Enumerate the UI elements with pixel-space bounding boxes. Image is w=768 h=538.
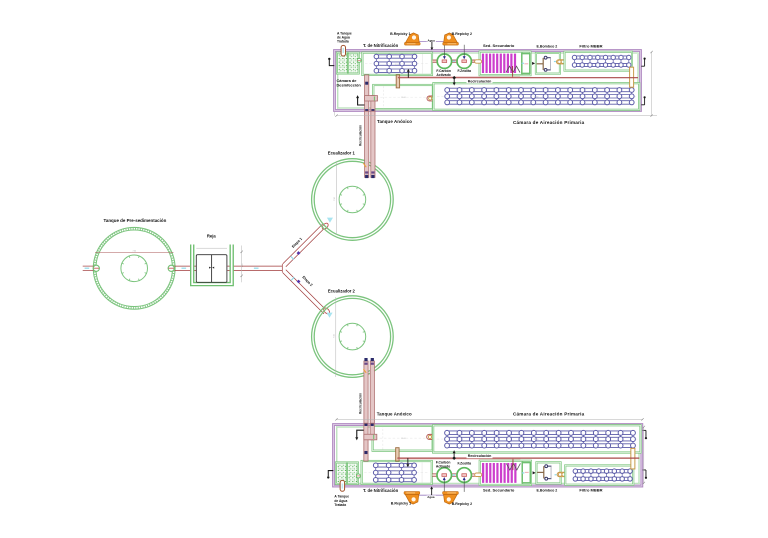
svg-text:Agua: Agua: [428, 38, 436, 42]
svg-text:Recirculación: Recirculación: [468, 80, 492, 84]
svg-text:Sed. Secundario: Sed. Secundario: [483, 487, 515, 492]
svg-text:B.Repicky 1: B.Repicky 1: [391, 502, 411, 506]
svg-text:7.50: 7.50: [132, 251, 136, 253]
svg-text:T. de Nitrificación: T. de Nitrificación: [363, 43, 399, 48]
svg-text:12.00: 12.00: [401, 97, 406, 99]
svg-text:12.00: 12.00: [401, 438, 406, 440]
svg-text:12.00: 12.00: [534, 439, 539, 441]
svg-text:1.10: 1.10: [242, 264, 244, 268]
svg-text:Sed. Secundario: Sed. Secundario: [483, 43, 515, 48]
svg-text:Tanque Anóxico: Tanque Anóxico: [377, 411, 412, 416]
svg-text:B.Repicky 2: B.Repicky 2: [452, 32, 472, 36]
svg-text:Activado: Activado: [436, 73, 450, 77]
svg-text:Ecualizador 1: Ecualizador 1: [328, 150, 356, 155]
svg-text:F.Zeolita: F.Zeolita: [458, 461, 472, 465]
svg-text:7.50: 7.50: [334, 334, 336, 338]
svg-text:Desinfección: Desinfección: [337, 83, 362, 88]
svg-text:Activado: Activado: [436, 465, 450, 469]
svg-text:Reja: Reja: [207, 233, 217, 238]
svg-text:7.50: 7.50: [334, 197, 336, 201]
svg-text:Tratada: Tratada: [334, 503, 346, 507]
svg-text:Recirculación: Recirculación: [358, 393, 362, 414]
svg-text:Tanque de Pre-sedimentación: Tanque de Pre-sedimentación: [104, 218, 167, 223]
svg-text:F.Zeolita: F.Zeolita: [458, 69, 472, 73]
svg-text:B.Repicky 2: B.Repicky 2: [452, 502, 472, 506]
svg-text:Filtro MBBR: Filtro MBBR: [579, 43, 602, 48]
svg-text:Cámara de Aireación Primaria: Cámara de Aireación Primaria: [513, 120, 585, 125]
svg-text:12.00: 12.00: [395, 471, 400, 473]
svg-text:Tanque Anóxico: Tanque Anóxico: [377, 119, 412, 124]
svg-text:Ecualizador 2: Ecualizador 2: [328, 288, 356, 293]
svg-text:12.00: 12.00: [395, 64, 400, 66]
svg-text:E.Bombeo 2: E.Bombeo 2: [537, 488, 558, 492]
svg-text:Agua: Agua: [427, 495, 435, 499]
svg-text:Recirculación: Recirculación: [358, 125, 362, 146]
svg-text:12.00: 12.00: [534, 97, 539, 99]
svg-text:Filtro MBBR: Filtro MBBR: [579, 487, 602, 492]
svg-text:B.Repicky 1: B.Repicky 1: [390, 32, 410, 36]
svg-text:Tratada: Tratada: [337, 40, 349, 44]
svg-text:Cámara de Aireación Primaria: Cámara de Aireación Primaria: [513, 411, 585, 416]
svg-text:E.Bombeo 2: E.Bombeo 2: [537, 44, 558, 48]
svg-text:Recirculación: Recirculación: [468, 454, 492, 458]
svg-text:T. de Nitrificación: T. de Nitrificación: [363, 488, 399, 493]
